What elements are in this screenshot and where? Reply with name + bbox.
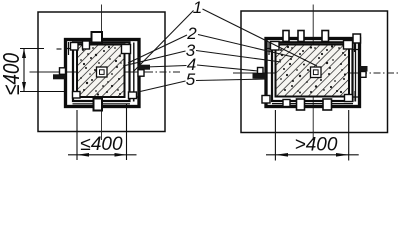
pinwheel step bottom-right (left) <box>132 91 140 102</box>
bottom dim ext line right (right diagram) <box>348 110 350 161</box>
center inner square (right) <box>313 70 318 75</box>
top cleat 2 (right) <box>298 31 304 42</box>
svg-text:1: 1 <box>193 0 202 17</box>
vert dim line (left) <box>23 49 25 92</box>
bottom dim arrow right (left diagram) <box>115 153 127 157</box>
horizontal axis dashed tail (left diagram) <box>146 71 180 73</box>
svg-text:≤400: ≤400 <box>80 134 123 155</box>
bottom dim arrow right (right diagram) <box>336 153 349 157</box>
left clamp bar (right diagram) <box>253 74 267 79</box>
center core square (left) <box>97 67 108 77</box>
bottom dim line (left diagram) <box>68 154 137 156</box>
leader 3 to left diagram <box>123 51 186 66</box>
pinwheel step top-left (right) <box>266 42 272 55</box>
pinwheel step bottom-right (right) <box>353 91 360 102</box>
horizontal axis line (right diagram) <box>233 72 360 74</box>
board line right margin (right) <box>355 43 357 102</box>
board line bottom margin (left) <box>73 103 131 105</box>
board line bottom margin (right) <box>272 103 353 105</box>
corner cleat BR (right) <box>345 95 353 102</box>
svg-text:5: 5 <box>186 70 196 89</box>
outer square (right) <box>241 11 388 133</box>
bottom clamp block (left) <box>94 99 103 111</box>
yoke frame (right) <box>266 39 360 107</box>
bottom dim ext line left (right diagram) <box>274 110 276 161</box>
right clamp notch (left) <box>138 70 144 77</box>
leader 5 to right diagram <box>196 79 267 81</box>
leader 5 to left diagram <box>138 81 186 92</box>
corner cleat BR (left) <box>129 92 137 99</box>
svg-text:≤400: ≤400 <box>0 53 24 95</box>
left clamp bar (left) <box>53 74 66 79</box>
panel ring (right) <box>272 42 353 101</box>
right clamp bar (right diagram) <box>360 66 368 72</box>
top clamp block (left) <box>92 32 103 43</box>
leader 2 to left diagram <box>128 35 187 63</box>
concrete dots (right) <box>279 45 346 93</box>
leader 4 to right diagram <box>197 65 258 71</box>
hatched column section (right) <box>276 45 350 97</box>
vertical axis line (left diagram) <box>101 5 103 141</box>
pinwheel step top-left (left) <box>66 42 73 55</box>
horizontal axis dashed tail (right diagram) <box>360 72 398 74</box>
corner cleat BL (right) <box>262 96 270 104</box>
corner cleat TL (right) <box>271 42 280 51</box>
right clamp notch (right diagram) <box>361 72 367 78</box>
leader 4 to left diagram <box>146 66 187 68</box>
top-left tab (left) <box>83 41 90 49</box>
right clamp bar (left) <box>138 65 151 70</box>
bottom dim ext line right (left diagram) <box>126 104 128 160</box>
vert dim arrow down (left) <box>22 82 26 92</box>
top cleat 1 (right) <box>283 31 289 42</box>
yoke frame (left) <box>66 40 140 107</box>
hatched column section (left) <box>77 45 125 98</box>
bottom dim arrow left (left diagram) <box>77 153 89 157</box>
bottom dim ext line left (left diagram) <box>76 110 78 160</box>
bottom dim line (right diagram) <box>266 154 359 156</box>
vert dim ext line top dash (left) <box>57 48 62 50</box>
vertical axis line (right diagram) <box>312 5 314 141</box>
board line right margin (left) <box>133 43 135 102</box>
horizontal axis line (left diagram) <box>30 71 147 73</box>
bottom cleat 1 (right) <box>297 99 305 110</box>
panel ring (left) <box>73 42 130 101</box>
corner cleat TL (left) <box>71 43 79 51</box>
vert dim ext line top (left) <box>20 48 44 50</box>
center inner square (left) <box>100 70 105 75</box>
corner step TR (right) <box>353 42 361 52</box>
vert dim ext line bottom (left) <box>20 91 64 93</box>
bottom dim arrow left (right diagram) <box>275 153 288 157</box>
outer square (left) <box>38 12 165 132</box>
center core square (right) <box>311 67 322 78</box>
vert dim arrow up (left) <box>22 49 26 59</box>
bottom cleat 2 (right) <box>323 99 332 110</box>
corner cleat BL (left) <box>73 92 81 99</box>
concrete dots (left) <box>80 46 122 96</box>
leader 1 to left diagram <box>133 11 194 73</box>
corner cleat TR (left) <box>122 45 131 54</box>
svg-text:>400: >400 <box>295 135 338 156</box>
leader 3 to right diagram <box>196 51 281 63</box>
top cleat 3 (right) <box>322 31 329 42</box>
left clamp notch (right diagram) <box>258 68 264 74</box>
corner tab TR (right) <box>353 34 361 43</box>
corner cleat TR (right) <box>344 41 353 50</box>
leader 1 to right diagram <box>203 9 318 66</box>
left clamp notch (left) <box>60 68 66 75</box>
leader 2 to right diagram <box>198 35 293 58</box>
bottom cleat notch (right) <box>283 100 290 107</box>
